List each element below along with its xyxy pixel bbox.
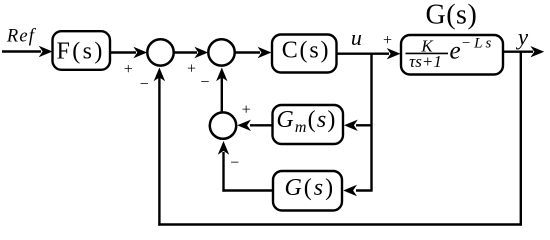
svg-text:−: − [230, 155, 239, 172]
wire sum1 to sum2 [174, 51, 197, 53]
svg-text:Ref: Ref [6, 27, 37, 47]
wire output feedback takeoff down [520, 52, 522, 226]
wire G model to sum3 [222, 189, 273, 191]
wire sum3 up into sum2 [221, 76, 223, 112]
svg-text:τs+1: τs+1 [409, 52, 442, 71]
wire u branch into G model [356, 189, 373, 191]
svg-text:Gm(s): Gm(s) [276, 107, 336, 136]
svg-text:y: y [516, 25, 529, 50]
block P1 plant K/(tau s+1) e^-Ls [401, 35, 503, 75]
svg-text:G(s): G(s) [284, 175, 335, 201]
block F1 filter F(s) [53, 31, 111, 70]
wire C(s) to plant with branch at u [337, 53, 390, 55]
svg-text:−: − [140, 76, 149, 93]
block Gmodel with delay G(s) [273, 171, 342, 211]
svg-text:+: + [383, 32, 392, 49]
wire F(s) to sum1 [110, 51, 136, 53]
wire Gm to sum3 [250, 124, 273, 126]
wire plant to output y [503, 51, 533, 53]
wire Ref input arrow [2, 50, 41, 52]
block C1 controller C(s) [272, 35, 337, 73]
summing junction S3 [210, 112, 236, 138]
wire u branch into Gm [356, 124, 372, 126]
fraction bar [406, 52, 449, 54]
svg-text:+: + [242, 102, 251, 119]
svg-text:e: e [449, 38, 460, 65]
svg-text:F(s): F(s) [57, 38, 105, 64]
svg-text:−Ls: −Ls [461, 36, 494, 52]
summing junction S1 [147, 39, 173, 65]
svg-text:+: + [124, 61, 133, 78]
block Gm model without delay [273, 105, 344, 144]
svg-text:+: + [187, 61, 196, 78]
svg-text:−: − [200, 74, 209, 91]
svg-text:G(s): G(s) [426, 0, 478, 31]
wire u branch vertical [370, 54, 372, 191]
wire bottom feedback line [158, 223, 522, 225]
summing junction S2 [208, 39, 234, 65]
svg-text:C(s): C(s) [282, 38, 331, 64]
wire feedback up into sum1 [158, 76, 160, 226]
svg-text:u: u [351, 25, 362, 50]
wire sum2 to C(s) [235, 51, 260, 53]
